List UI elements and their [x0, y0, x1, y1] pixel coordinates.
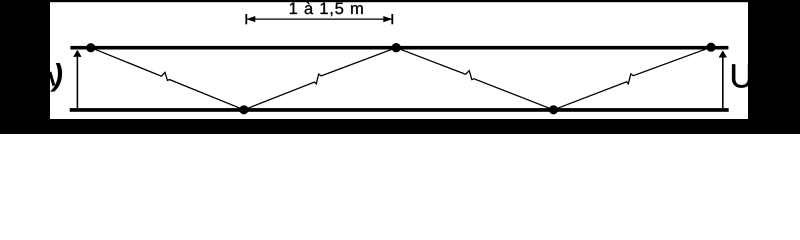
background mask left [0, 0, 50, 134]
partial figure label ")" [50, 63, 62, 92]
node bottom-left [239, 105, 248, 114]
label U [732, 64, 751, 87]
right height arrow head [719, 50, 727, 57]
partial figure label: letter sliver [48, 72, 55, 87]
wire segment 3 with break symbol [396, 48, 553, 110]
dimension line [247, 18, 392, 20]
right height arrow stem [722, 54, 724, 109]
wire segment 1 with break symbol [91, 48, 244, 110]
dimension left arrowhead [246, 16, 255, 22]
bottom support bar [70, 108, 729, 112]
dimension right arrowhead [383, 16, 392, 22]
background mask right [748, 0, 800, 134]
node top-right [706, 43, 715, 52]
dimension label "1 à 1,5 m" [290, 2, 363, 16]
node top-middle [392, 43, 401, 52]
node bottom-right [549, 105, 558, 114]
left height arrow head [73, 50, 81, 57]
top support bar [70, 46, 728, 50]
wire segment 2 with break symbol [244, 48, 396, 110]
node top-left [86, 43, 95, 52]
wire segment 4 with break symbol [554, 47, 712, 110]
dimension right tick [391, 14, 393, 24]
background mask bottom [0, 119, 800, 134]
left height arrow stem [76, 53, 78, 108]
background mask top [0, 0, 800, 2]
dimension left tick [245, 14, 247, 24]
